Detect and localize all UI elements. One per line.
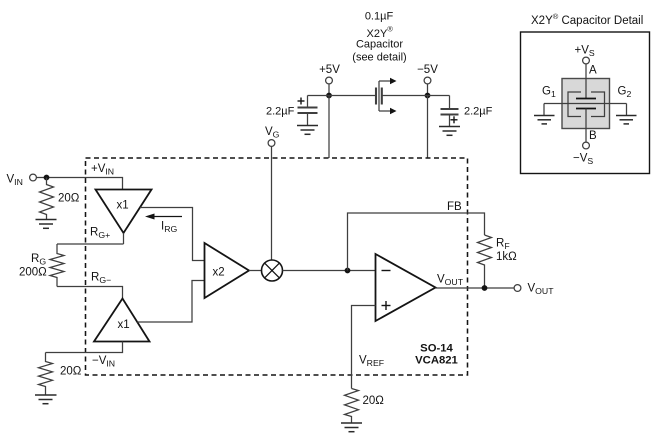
node -VS <box>573 142 593 166</box>
svg-text:1kΩ: 1kΩ <box>496 251 517 263</box>
wire A electrode <box>585 64 587 99</box>
wire B electrode <box>585 109 587 143</box>
wire VG to multiplier <box>271 146 273 260</box>
resistor RG 200 ohm <box>50 244 64 287</box>
X2Y capacitor detail border box <box>521 32 650 174</box>
ground below R3 <box>341 423 362 432</box>
svg-text:2.2µF: 2.2µF <box>266 106 295 118</box>
wire VIN to buffer input <box>36 178 122 190</box>
svg-text:FB: FB <box>447 201 462 213</box>
ground G1 <box>534 116 555 124</box>
junction VOUT / RF <box>482 285 488 291</box>
label 0.1uF X2Y capacitor annotation <box>352 11 406 64</box>
ground below C1 <box>297 126 318 135</box>
wire +5V pin into IC <box>328 96 330 159</box>
node -5V <box>417 64 438 84</box>
svg-text:B: B <box>589 130 597 142</box>
buffer U1b x1 <box>94 299 150 342</box>
junction inverting input / FB <box>345 268 351 274</box>
resistor R3 20 ohm <box>345 389 359 423</box>
label SO-14 VCA821 <box>415 343 458 367</box>
wire G1 to ground <box>543 104 545 116</box>
buffer U1a x1 <box>96 190 152 234</box>
svg-text:20Ω: 20Ω <box>60 366 82 378</box>
ground G2 <box>616 116 637 124</box>
svg-text:SO-14: SO-14 <box>420 343 453 355</box>
svg-text:x1: x1 <box>118 319 130 331</box>
wire +5V terminal to rail <box>328 84 330 96</box>
junction -5V on rail <box>425 93 431 99</box>
node VG <box>265 126 280 146</box>
resistor R1 20 ohm <box>40 178 54 220</box>
amplifier x2 <box>205 243 250 298</box>
wire G electrode <box>544 103 627 105</box>
wire multiplier output to inverting input <box>283 270 376 272</box>
ground below R1 <box>36 220 57 229</box>
wire buffer U1a apex to RG+ <box>123 233 125 244</box>
svg-text:20Ω: 20Ω <box>58 193 80 205</box>
wire -5V terminal to rail <box>427 84 429 96</box>
multiplier <box>262 260 283 281</box>
junction +5V on rail <box>326 93 332 99</box>
svg-text:0.1µF: 0.1µF <box>365 11 394 23</box>
resistor R2 20 ohm <box>39 353 53 396</box>
plate B <box>576 108 596 110</box>
svg-text:VCA821: VCA821 <box>415 355 458 367</box>
IC U1 VCA821 boundary dashed box <box>86 158 468 375</box>
svg-text:200Ω: 200Ω <box>19 267 47 279</box>
wire -VIN <box>46 342 123 353</box>
wire buffer U1a output to x2 input <box>140 208 205 261</box>
wire -5V pin into IC <box>427 96 429 159</box>
X2Y capacitor body <box>562 79 610 129</box>
wire FB <box>348 213 485 271</box>
ground below C3 <box>439 127 460 136</box>
wire VREF <box>352 306 376 389</box>
svg-text:20Ω: 20Ω <box>363 395 385 407</box>
wire G2 to ground <box>626 104 628 116</box>
svg-text:x2: x2 <box>213 267 225 279</box>
svg-text:x1: x1 <box>117 200 129 212</box>
arrow IRG <box>145 214 182 220</box>
wire RG- <box>57 287 123 299</box>
wire x2 output to multiplier <box>249 270 262 272</box>
G1 bracket electrode <box>568 92 581 117</box>
svg-text:(see detail): (see detail) <box>352 52 406 64</box>
svg-text:Capacitor: Capacitor <box>356 39 403 51</box>
wire supply rail right segment <box>382 95 450 97</box>
ground below R2 <box>35 395 57 404</box>
wire VOUT <box>436 287 515 289</box>
wire supply rail left segment <box>308 95 377 97</box>
wire RG+ <box>57 243 124 245</box>
capacitor C3 2.2uF <box>441 96 459 127</box>
svg-text:+5V: +5V <box>319 64 340 76</box>
node VOUT <box>514 283 554 297</box>
node +VS <box>575 45 595 64</box>
svg-text:−5V: −5V <box>417 64 438 76</box>
junction VIN / R1 <box>44 175 50 181</box>
capacitor C2 0.1uF X2Y symbol <box>376 78 397 115</box>
svg-text:X2Y® Capacitor Detail: X2Y® Capacitor Detail <box>531 12 643 27</box>
wire buffer U1b output to x2 input <box>137 281 204 323</box>
capacitor C1 2.2uF <box>298 96 318 126</box>
node +5V <box>319 64 340 84</box>
node VIN <box>7 174 37 188</box>
plate A <box>576 98 596 100</box>
G2 bracket electrode <box>591 92 605 117</box>
svg-text:A: A <box>589 65 597 77</box>
svg-text:2.2µF: 2.2µF <box>464 106 493 118</box>
op-amp U1c output stage <box>376 254 436 321</box>
resistor RF 1k ohm <box>478 235 492 288</box>
